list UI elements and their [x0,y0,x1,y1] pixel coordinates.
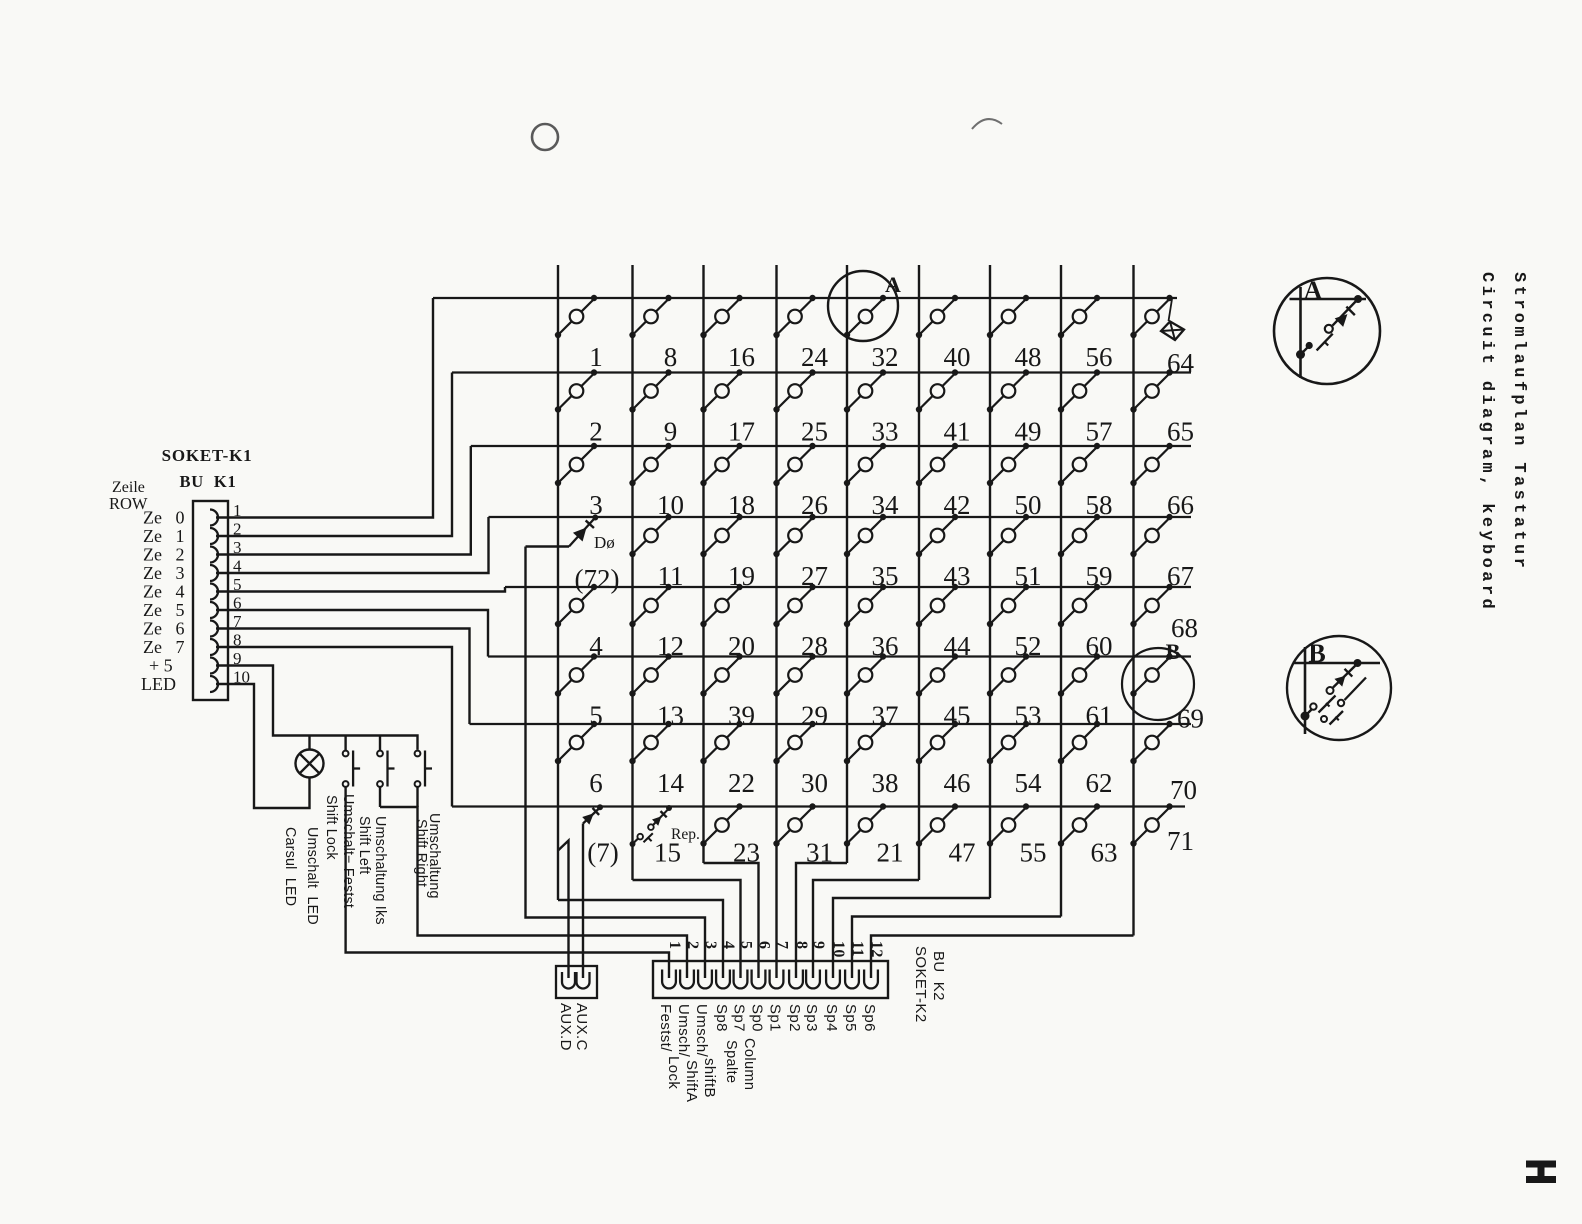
wire: row 2 horizontal line (Ze 1) [452,371,1191,373]
detail view A: switch with diode (enlarged) [1274,278,1380,384]
svg-text:SOKET-K2: SOKET-K2 [912,946,929,1023]
key switch 26 [773,443,815,486]
svg-text:66: 66 [1167,490,1194,520]
svg-text:Sp1: Sp1 [767,1004,784,1032]
svg-text:59: 59 [1086,561,1113,591]
svg-text:8: 8 [664,342,678,372]
wire: row 8 horizontal line (Ze 7) [452,805,1185,807]
svg-text:47: 47 [949,838,976,868]
key switch 61 [1058,653,1100,696]
svg-text:Carsul LED: Carsul LED [282,827,298,906]
key switch 38 [844,721,886,764]
key switch 45 [916,653,958,696]
K2 pin 5 socket contact [734,970,748,989]
svg-text:42: 42 [944,490,971,520]
AUX pin C socket contact [577,972,590,989]
wire: row 6 horizontal line (Ze 5) [488,655,1191,657]
key switch 56 [1058,295,1100,338]
wire: K1 pin 1 (Ze 0) to row 1 [216,298,433,518]
svg-text:16: 16 [728,342,755,372]
svg-text:13: 13 [657,701,684,731]
svg-text:Lock: Lock [665,1056,682,1089]
wire: column 1 vertical line (Sp) [557,265,559,900]
svg-text:Ze 2: Ze 2 [143,545,184,565]
svg-text:45: 45 [944,701,971,731]
wire: column 2 to K2 pin 5 [633,880,741,978]
svg-text:63: 63 [1091,838,1118,868]
svg-text:22: 22 [728,768,755,798]
key switch 28 [773,584,815,627]
key switch 23 [700,803,742,846]
connector SOKET-K1 / BU K1 body [193,501,228,700]
push switch Shift Lock / Umschalt-Festst [343,751,360,787]
svg-text:37: 37 [872,701,899,731]
wire: K1 pin 8 (Ze 7) to row 8 [216,647,452,807]
svg-text:12: 12 [868,941,885,958]
key switch 54 [987,721,1029,764]
svg-text:12: 12 [657,631,684,661]
svg-text:34: 34 [872,490,900,520]
svg-text:31: 31 [806,838,833,868]
svg-text:Dø: Dø [594,533,615,552]
K2 pin 8 socket contact [789,970,803,989]
svg-text:53: 53 [1015,701,1042,731]
svg-text:6: 6 [756,941,773,949]
wire: row 4 horizontal line (Ze 3) [489,516,1192,518]
push switch Shift Right / Umschaltung [415,751,432,787]
key switch 18 [700,443,742,486]
wire: column 5 to K2 pin 8 [796,863,847,978]
key switch 65 [1130,369,1172,412]
LED "Umschalt LED / Carsul LED" [296,750,324,778]
key switch 68 [1130,584,1172,627]
connector SOKET-K2 / BU K2 body [653,961,888,998]
svg-text:BU K1: BU K1 [179,472,236,491]
svg-text:55: 55 [1020,838,1047,868]
svg-text:Sp6: Sp6 [861,1004,878,1032]
svg-text:60: 60 [1086,631,1113,661]
svg-text:(72): (72) [575,564,620,594]
svg-text:AUX.D: AUX.D [557,1003,574,1051]
push switch Shift Left / Umschaltung Iks [377,751,394,787]
wire: Shift Left / Shift Right common to K2 pin 2 [379,787,381,807]
svg-text:5: 5 [589,701,603,731]
svg-text:SOKET-K1: SOKET-K1 [162,446,253,465]
svg-text:24: 24 [801,342,829,372]
wire: row 7 horizontal line (Ze 6) [470,723,1192,725]
svg-text:6: 6 [589,768,603,798]
wire: Shift Lock to K2 pin 1 [346,787,669,978]
wire: K1 pin 9 (+5) rail to LED and shift switches [216,666,418,750]
K2 pin 6 socket contact [752,970,766,989]
key switch 11 [629,514,671,557]
wire: K1 pin 4 (Ze 3) to row 4 [216,517,489,573]
key switch 6 [555,721,597,764]
scan artifact arc [972,119,1002,129]
K2 pin 9 socket contact [806,970,820,989]
svg-text:Ze 1: Ze 1 [143,526,184,546]
wire: column 9 to K2 pin 12 [871,936,1134,979]
diode D0 (row 4, labelled (72)) [526,515,599,547]
svg-text:A: A [1304,276,1323,305]
callout circle A on switch 32 [828,271,898,341]
svg-text:Umsch/: Umsch/ [693,1004,710,1058]
wire: +5 tap to Shift Lock [344,736,346,751]
svg-text:19: 19 [728,561,755,591]
key switch 34 [844,443,886,486]
wire: column 6 vertical line (Sp) [918,265,920,880]
key switch 46 [916,721,958,764]
K2 pin 12 socket contact [864,970,878,989]
key switch 50 [987,443,1029,486]
K1 pin 7 socket contact [210,621,218,637]
connector AUX body [556,966,597,998]
wire: column 9 vertical line (Sp) [1132,265,1134,936]
wire: D0 anode to K2 pin 3 [526,547,706,979]
svg-text:2: 2 [589,417,603,447]
key switch 53 [987,653,1029,696]
svg-text:Umschalt LED: Umschalt LED [304,827,320,925]
K1 pin 1 socket contact [210,510,218,526]
key switch 69 [1130,653,1172,696]
svg-text:Stromlaufplan Tastatur: Stromlaufplan Tastatur [1509,272,1528,571]
key switch 39 [700,653,742,696]
key switch 17 [700,369,742,412]
key switch 20 [700,584,742,627]
key switch 16 [700,295,742,338]
key switch 35 [844,514,886,557]
svg-text:71: 71 [1167,826,1194,856]
svg-text:2: 2 [684,941,701,949]
wire: AUX.D tap from column 1 [558,841,569,979]
svg-text:11: 11 [849,941,866,957]
svg-text:26: 26 [801,490,828,520]
svg-text:LED: LED [141,674,176,694]
svg-text:51: 51 [1015,561,1042,591]
key switch 63 [1058,803,1100,846]
svg-text:64: 64 [1167,348,1195,378]
svg-text:(7): (7) [587,838,618,868]
svg-text:Ze 0: Ze 0 [143,508,184,528]
key switch 21 [844,803,886,846]
wire: column 3 vertical line (Sp) [702,265,704,863]
wire: column 8 vertical line (Sp) [1060,265,1062,917]
svg-text:Circuit diagram, keyboard: Circuit diagram, keyboard [1477,272,1496,612]
svg-text:Umschaltung: Umschaltung [426,813,442,899]
svg-text:Ze 3: Ze 3 [143,563,184,583]
wire: K1 pin 10 to LED cathode [216,684,310,808]
svg-text:50: 50 [1015,490,1042,520]
key switch 2 [555,369,597,412]
svg-text:9: 9 [810,941,827,949]
svg-text:B: B [1308,639,1325,668]
key switch 27 [773,514,815,557]
svg-text:10: 10 [657,490,684,520]
svg-text:39: 39 [728,701,755,731]
svg-text:BU K2: BU K2 [930,951,947,1001]
svg-text:shiftB: shiftB [701,1058,718,1098]
wire: column 6 to K2 pin 9 [813,880,919,978]
K1 pin 9 socket contact [210,658,218,674]
key switch 40 [916,295,958,338]
key switch 43 [916,514,958,557]
key switch 66 [1130,443,1172,486]
wire: row 5 horizontal line (Ze 4) [505,586,1191,588]
svg-text:20: 20 [728,631,755,661]
svg-text:21: 21 [877,838,904,868]
svg-text:11: 11 [658,561,684,591]
key switch 22 [700,721,742,764]
svg-text:4: 4 [720,941,737,949]
svg-text:Sp0: Sp0 [749,1004,766,1032]
svg-text:54: 54 [1015,768,1043,798]
svg-text:Umschalt− Festst: Umschalt− Festst [340,794,356,908]
svg-text:A: A [885,272,901,297]
svg-text:49: 49 [1015,417,1042,447]
svg-text:17: 17 [728,417,755,447]
wire: K1 pin 7 (Ze 6) to row 7 [216,629,470,725]
svg-text:1: 1 [589,342,603,372]
key switch 4 [555,584,597,627]
svg-text:10: 10 [830,941,847,958]
svg-text:40: 40 [944,342,971,372]
svg-text:1: 1 [666,941,683,949]
svg-text:5: 5 [738,941,755,949]
svg-text:56: 56 [1086,342,1113,372]
svg-text:Sp5: Sp5 [842,1004,859,1032]
key switch 41 [916,369,958,412]
detail view B: double switch with diode (enlarged) [1287,636,1391,740]
svg-text:29: 29 [801,701,828,731]
key switch 19 [700,514,742,557]
svg-text:AUX.C: AUX.C [573,1003,590,1051]
wire: column 7 to K2 pin 10 [833,898,990,978]
svg-text:18: 18 [728,490,755,520]
wire: K1 pin 6 (Ze 5) to row 6 [216,610,488,657]
svg-text:Sp8: Sp8 [713,1004,730,1032]
key switch 62 [1058,721,1100,764]
svg-text:Sp4: Sp4 [823,1004,840,1032]
key switch 8 [629,295,671,338]
svg-text:48: 48 [1015,342,1042,372]
wire: row 1 horizontal line (Ze 0) [433,297,1177,299]
svg-text:36: 36 [872,631,899,661]
key switch 25 [773,369,815,412]
svg-text:4: 4 [589,631,603,661]
svg-text:Ze 7: Ze 7 [143,637,184,657]
key switch 47 [916,803,958,846]
key switch 1 [555,295,597,338]
key switch 52 [987,584,1029,627]
svg-text:Sp2: Sp2 [786,1004,803,1032]
K1 pin 8 socket contact [210,639,218,655]
svg-text:Rep.: Rep. [671,826,700,843]
key switch 48 [987,295,1029,338]
key switch 58 [1058,443,1100,486]
K2 pin 11 socket contact [845,970,859,989]
svg-text:Umschaltung Iks: Umschaltung Iks [372,816,388,925]
key switch 57 [1058,369,1100,412]
wire: AUX.C to diode (7) [582,824,584,979]
svg-text:Column: Column [741,1038,757,1090]
svg-text:69: 69 [1177,704,1204,734]
svg-text:ShiftA: ShiftA [683,1060,700,1102]
key switch 71 [1130,803,1172,846]
key switch 31 [773,803,815,846]
key switch 3 [555,443,597,486]
svg-text:61: 61 [1086,701,1113,731]
svg-text:33: 33 [872,417,899,447]
svg-text:Shift Lock: Shift Lock [323,795,339,860]
key switch 13 [629,653,671,696]
K1 pin 6 socket contact [210,602,218,618]
K2 pin 4 socket contact [716,970,730,989]
wire: column 4 vertical line (Sp) [775,265,777,978]
svg-text:Festst/: Festst/ [657,1004,674,1052]
wire: column 2 vertical line (Sp) [631,265,633,880]
key switch 60 [1058,584,1100,627]
wire: K1 pin 5 (Ze 4) to row 5 [216,587,505,592]
wire: column 7 vertical line (Sp) [989,265,991,898]
K1 pin 2 socket contact [210,528,218,544]
svg-text:52: 52 [1015,631,1042,661]
K1 pin 10 socket contact [210,676,218,692]
wire: column 3 to K2 pin 6 [704,863,759,978]
key switch 5 [555,653,597,696]
wire: K1 pin 2 (Ze 1) to row 2 [216,373,452,537]
wire: column 8 to K2 pin 11 [852,917,1061,979]
svg-text:70: 70 [1170,775,1197,805]
key switch 70 [1130,721,1172,764]
key switch 12 [629,584,671,627]
svg-text:46: 46 [944,768,971,798]
svg-text:Sp3: Sp3 [803,1004,820,1032]
connector termination symbol on row 1 right end [1161,299,1184,340]
wire: column 1 to K2 pin 4 [558,900,723,978]
svg-text:3: 3 [702,941,719,949]
key switch 14 [629,721,671,764]
Rep switch (15) on row 8 column 2 [630,805,673,847]
svg-text:14: 14 [657,768,685,798]
K1 pin 4 socket contact [210,565,218,581]
K2 pin 10 socket contact [826,970,840,989]
K2 pin 7 socket contact [770,970,784,989]
svg-text:65: 65 [1167,417,1194,447]
wire: row 3 horizontal line (Ze 2) [471,445,1191,447]
wire: column 5 vertical line (Sp) [846,265,848,863]
svg-text:43: 43 [944,561,971,591]
key switch 59 [1058,514,1100,557]
wire: +5 tap to LED [308,736,310,750]
svg-text:67: 67 [1167,561,1194,591]
key switch 10 [629,443,671,486]
K2 pin 1 socket contact [662,970,676,989]
diode (7) on row 8 / AUX.C [582,804,603,824]
key switch 36 [844,584,886,627]
svg-text:32: 32 [872,342,899,372]
key switch 42 [916,443,958,486]
key switch 29 [773,653,815,696]
sheet letter H (rotated) [1526,1161,1556,1184]
svg-text:28: 28 [801,631,828,661]
key switch 33 [844,369,886,412]
svg-text:58: 58 [1086,490,1113,520]
key switch 51 [987,514,1029,557]
svg-text:44: 44 [944,631,972,661]
svg-text:Ze 5: Ze 5 [143,600,184,620]
svg-text:41: 41 [944,417,971,447]
wire: K1 pin 3 (Ze 2) to row 3 [216,446,471,555]
AUX pin D socket contact [562,972,575,989]
svg-text:8: 8 [793,941,810,949]
key switch 49 [987,369,1029,412]
key switch 24 [773,295,815,338]
svg-text:7: 7 [774,941,791,949]
wire: +5 tap to Shift Left [379,736,381,751]
key switch 9 [629,369,671,412]
svg-text:25: 25 [801,417,828,447]
svg-text:Ze 6: Ze 6 [143,619,184,639]
svg-text:27: 27 [801,561,828,591]
svg-text:+ 5: + 5 [149,656,173,676]
svg-text:38: 38 [872,768,899,798]
svg-text:B: B [1166,639,1181,664]
svg-text:9: 9 [664,417,678,447]
svg-text:Shift Left: Shift Left [356,816,372,874]
svg-text:57: 57 [1086,417,1113,447]
svg-text:Ze 4: Ze 4 [143,582,184,602]
svg-text:Umsch/: Umsch/ [675,1004,692,1058]
key switch 67 [1130,514,1172,557]
key switch 44 [916,584,958,627]
svg-text:35: 35 [872,561,899,591]
key switch 64 [1130,295,1172,338]
key switch 37 [844,653,886,696]
svg-text:Sp7: Sp7 [731,1004,748,1032]
K1 pin 5 socket contact [210,584,218,600]
key switch 55 [987,803,1029,846]
key switch 32 [844,295,886,338]
K2 pin 3 socket contact [698,970,712,989]
callout circle B on switch 69 [1122,648,1194,720]
svg-text:62: 62 [1086,768,1113,798]
svg-text:Spalte: Spalte [723,1040,739,1084]
K2 pin 2 socket contact [680,970,694,989]
svg-text:30: 30 [801,768,828,798]
svg-text:23: 23 [733,838,760,868]
key switch 30 [773,721,815,764]
scan artifact ring (hole punch mark) [532,124,558,150]
K1 pin 3 socket contact [210,547,218,563]
